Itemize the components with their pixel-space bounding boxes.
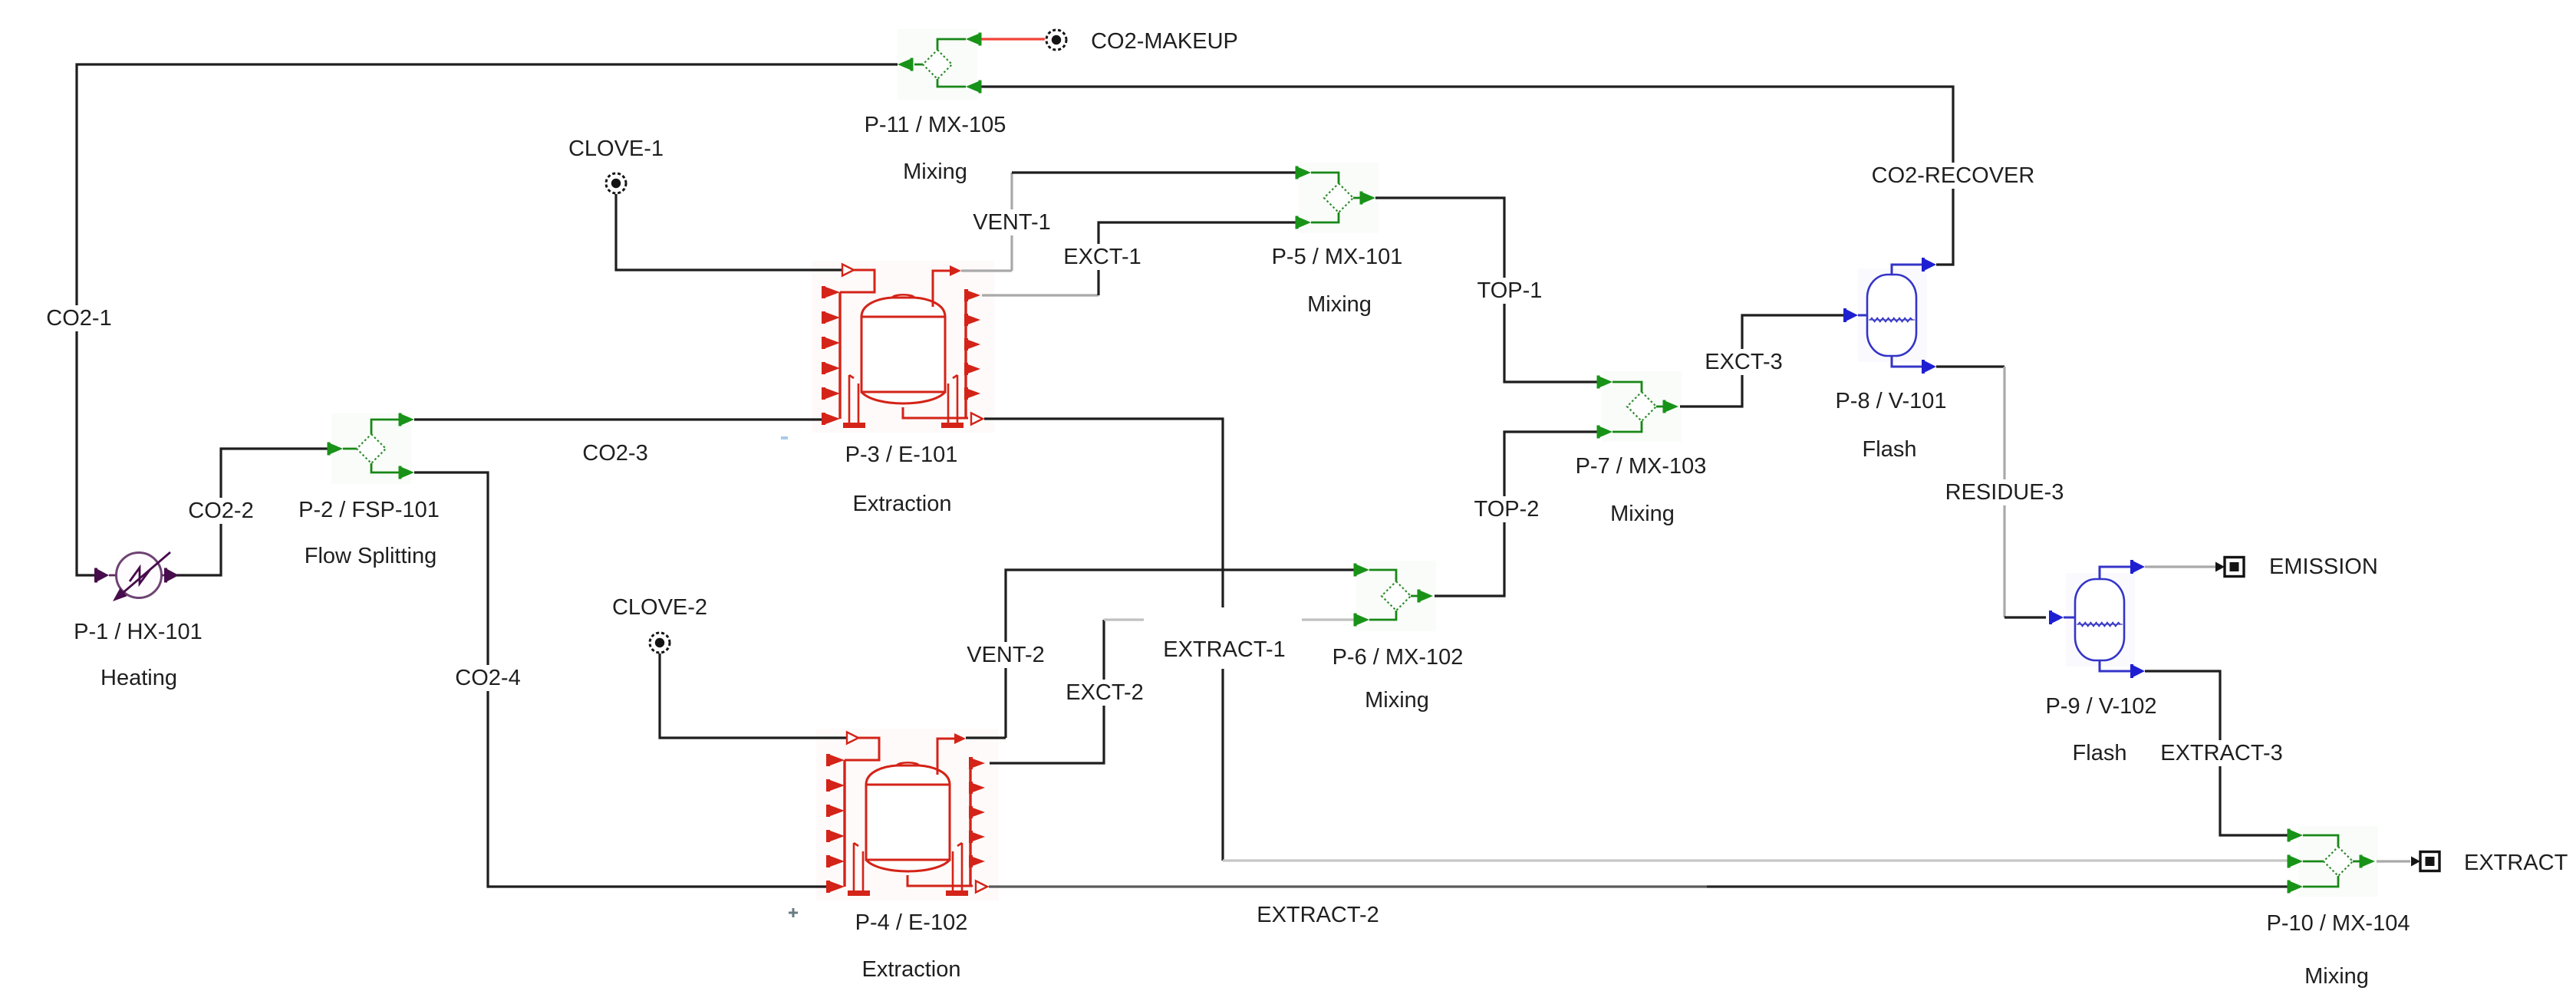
wire CO2-MAKEUP (red) (979, 38, 1045, 40)
svg-text:P-1 / HX-101: P-1 / HX-101 (74, 620, 203, 644)
stream label CO2-1 (42, 305, 115, 331)
wire CLOVE-2 feed line (660, 653, 846, 738)
wire EXCT-2 : E-102 side outlet to mixer P-6 (990, 620, 1104, 763)
source CLOVE-2 (650, 633, 670, 653)
wire CLOVE-1 feed line (616, 194, 842, 270)
wire CO2-2 : heater P-1 to splitter P-2 (176, 449, 330, 575)
wire EXTRACT-2 : E-102 bottom outlet to mixer P-10 bottom inlet (989, 885, 1707, 887)
svg-text:P-9 / V-102: P-9 / V-102 (2045, 694, 2156, 719)
svg-text:Mixing: Mixing (1307, 292, 1372, 317)
mixer P-5 / MX-101 (1296, 166, 1376, 229)
sink EMISSION (2215, 562, 2225, 572)
artifact cross (789, 908, 798, 917)
artifact dash (781, 436, 788, 439)
stream label CO2-4 (451, 665, 524, 691)
wire EMISSION (gray) (2145, 565, 2219, 568)
svg-text:P-5 / MX-101: P-5 / MX-101 (1272, 245, 1403, 269)
mixer P-10 / MX-104 (2288, 829, 2376, 894)
svg-text:Flow Splitting: Flow Splitting (305, 544, 436, 568)
heater P-1 / HX-101 (94, 552, 179, 601)
mixer P-7 / MX-103 (1597, 376, 1679, 439)
svg-text:Mixing: Mixing (1610, 502, 1675, 526)
svg-text:EXTRACT: EXTRACT (2464, 851, 2568, 875)
stream label RESIDUE-3 (1942, 479, 2068, 505)
svg-text:TOP-1: TOP-1 (1477, 278, 1543, 303)
svg-text:P-8 / V-101: P-8 / V-101 (1835, 389, 1946, 413)
source CO2-MAKEUP (1046, 30, 1066, 50)
wire RESIDUE-3 : flash V-101 bottom to flash V-102 (gray drop) (1936, 365, 2004, 367)
wire TOP-2 : mixer P-6 output up to mixer P-7 (1435, 432, 1599, 596)
stream label EXCT-1 (1059, 244, 1145, 270)
svg-text:Mixing: Mixing (1365, 688, 1429, 713)
stream label CO2-MAKEUP (1087, 28, 1242, 54)
wire EXCT-1 : E-101 side outlet to mixer P-5 (982, 294, 1099, 296)
wire EXTRACT-1 : E-101 bottom outlet down to mixer P-10 middle inlet (984, 419, 1223, 861)
wire VENT-2 : E-102 top outlet to mixer P-6 (966, 736, 1006, 739)
svg-text:TOP-2: TOP-2 (1474, 497, 1540, 522)
wire EXTRACT output (gray) (2377, 860, 2410, 862)
svg-text:EXCT-2: EXCT-2 (1066, 680, 1144, 705)
flash P-9 / V-102 (2049, 560, 2145, 678)
wire CO2-1 : from mixer P-11 output left, down to heater P-1 (77, 64, 898, 575)
stream label EXTRACT-1 (1144, 607, 1302, 669)
svg-text:EXTRACT-2: EXTRACT-2 (1257, 903, 1379, 927)
svg-text:RESIDUE-3: RESIDUE-3 (1945, 480, 2064, 505)
stream label EMISSION (2265, 554, 2382, 580)
svg-text:Extraction: Extraction (853, 492, 952, 516)
sink EXTRACT (2411, 857, 2420, 867)
stream label EXTRACT (2460, 850, 2571, 876)
svg-text:CO2-3: CO2-3 (582, 441, 647, 466)
svg-text:P-6 / MX-102: P-6 / MX-102 (1332, 645, 1464, 670)
unit highlight tints (331, 413, 411, 484)
stream label EXCT-2 (1061, 680, 1148, 706)
wire TOP-1 : mixer P-5 output down to mixer P-7 (1375, 198, 1599, 382)
stream label CO2-2 (184, 498, 257, 524)
stream label VENT-1 (968, 209, 1055, 235)
wire VENT-1 : E-101 top outlet to mixer P-5 (gray riser) (961, 269, 1012, 272)
stream label CLOVE-2 (608, 594, 711, 621)
wire EXCT-3 : mixer P-7 output to flash V-101 (1680, 315, 1844, 407)
wire CO2-3 : splitter P-2 top to extractor E-101 bottom-left inlet (414, 418, 823, 420)
svg-text:CLOVE-1: CLOVE-1 (568, 137, 664, 161)
svg-text:CO2-RECOVER: CO2-RECOVER (1872, 163, 2035, 188)
svg-text:Flash: Flash (1863, 437, 1917, 462)
svg-text:Mixing: Mixing (2304, 964, 2369, 989)
svg-text:Flash: Flash (2073, 741, 2127, 765)
wire CO2-RECOVER : flash V-101 top back to mixer P-11 bottom inlet (979, 87, 1953, 265)
extractor P-3 / E-101 (822, 265, 983, 429)
splitter P-2 / FSP-101 (328, 413, 415, 479)
svg-text:CO2-4: CO2-4 (455, 666, 520, 690)
svg-text:P-2 / FSP-101: P-2 / FSP-101 (298, 498, 440, 522)
source CLOVE-1 (606, 173, 626, 193)
svg-text:P-10 / MX-104: P-10 / MX-104 (2267, 911, 2410, 936)
svg-text:EXCT-1: EXCT-1 (1063, 245, 1141, 269)
svg-text:CLOVE-2: CLOVE-2 (612, 595, 707, 620)
flash P-8 / V-101 (1843, 258, 1936, 374)
extractor P-4 / E-102 (826, 732, 987, 897)
svg-text:P-4 / E-102: P-4 / E-102 (855, 910, 968, 935)
svg-text:EXTRACT-1: EXTRACT-1 (1163, 637, 1286, 662)
svg-text:CO2-MAKEUP: CO2-MAKEUP (1091, 29, 1238, 54)
svg-text:P-7 / MX-103: P-7 / MX-103 (1576, 454, 1707, 479)
wire CO2-4 : splitter P-2 bottom to extractor E-102 bottom-left inlet (414, 472, 828, 887)
svg-text:CO2-1: CO2-1 (46, 306, 111, 331)
svg-text:VENT-2: VENT-2 (967, 643, 1045, 667)
svg-text:CO2-2: CO2-2 (188, 499, 253, 523)
svg-text:P-3 / E-101: P-3 / E-101 (845, 443, 958, 467)
stream label EXTRACT-3 (2156, 740, 2287, 766)
svg-text:Heating: Heating (100, 666, 177, 690)
mixer P-6 / MX-102 (1354, 564, 1434, 627)
svg-text:EXTRACT-3: EXTRACT-3 (2160, 741, 2283, 765)
svg-text:P-11 / MX-105: P-11 / MX-105 (865, 113, 1006, 137)
stream label CO2-3 (578, 440, 651, 466)
stream label CLOVE-1 (565, 136, 667, 162)
stream label CO2-RECOVER (1868, 163, 2039, 189)
svg-text:EMISSION: EMISSION (2269, 555, 2378, 579)
svg-text:VENT-1: VENT-1 (973, 210, 1051, 235)
stream label TOP-2 (1470, 496, 1543, 522)
svg-text:Mixing: Mixing (903, 160, 967, 184)
svg-text:Extraction: Extraction (862, 957, 961, 982)
stream label EXTRACT-2 (1252, 902, 1383, 928)
stream label EXCT-3 (1700, 349, 1787, 375)
mixer P-11 / MX-105 (mirrored) (898, 33, 982, 94)
wire EXTRACT-3 : flash V-102 bottom to mixer P-10 top inlet (2145, 671, 2289, 835)
stream label TOP-1 (1473, 278, 1546, 304)
stream label VENT-2 (962, 642, 1049, 668)
svg-text:EXCT-3: EXCT-3 (1705, 350, 1783, 374)
